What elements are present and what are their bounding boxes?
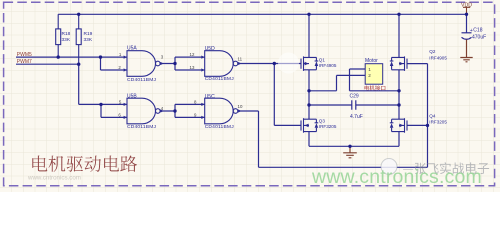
junction rail-VDD/C18: [465, 13, 468, 16]
svg-text:C29: C29: [350, 93, 359, 99]
junction PWM7-R19: [77, 62, 80, 65]
svg-text:Q1: Q1: [319, 57, 326, 62]
pin arrow marks on gate pins: [124, 56, 242, 120]
junction PWM5 branch: [99, 55, 102, 58]
resistor R18 labels: [62, 31, 71, 43]
svg-text:Motor: Motor: [365, 58, 378, 64]
svg-text:www.cntronics.com: www.cntronics.com: [311, 166, 482, 188]
wire left leg (Q1/Q3 drain column): [308, 14, 310, 146]
resistor R18: [56, 14, 61, 57]
wire PWM7 net: [16, 64, 127, 117]
wire ground rail: [309, 145, 399, 147]
svg-text:4.7uF: 4.7uF: [350, 114, 363, 120]
sheet border (dashed): [4, 2, 495, 186]
wire Motor pin2 to left leg: [309, 75, 365, 90]
junction rail-R19: [77, 13, 80, 16]
watermark logo circle: [381, 159, 397, 175]
svg-text:CD4011BMJ: CD4011BMJ: [127, 124, 157, 130]
svg-text:1: 1: [368, 67, 371, 72]
watermark light spot over wire: [278, 53, 299, 74]
junction ground rail: [348, 145, 351, 148]
svg-text:33K: 33K: [62, 37, 71, 43]
connector Motor: [365, 64, 383, 84]
svg-text:IRF3205: IRF3205: [319, 124, 337, 129]
resistor R19 labels: [84, 31, 93, 43]
svg-text:CD4011BMJ: CD4011BMJ: [205, 124, 235, 130]
wire U5C output to Q2/Q4 gates: [238, 64, 428, 168]
NAND gate U5D CD4011BMJ: [205, 51, 234, 77]
resistor R19: [76, 14, 81, 64]
junction left leg motor tap: [307, 89, 310, 92]
svg-text:U5D: U5D: [205, 46, 215, 52]
NAND gate U5C CD4011BMJ: [205, 98, 234, 124]
ground (bridge): [343, 146, 357, 158]
svg-text:33K: 33K: [84, 37, 93, 43]
svg-text:Q4: Q4: [429, 114, 436, 119]
svg-text:U5B: U5B: [127, 93, 137, 99]
transistor Q3 IRF3205: [301, 118, 318, 133]
svg-text:CD4011BMJ: CD4011BMJ: [205, 76, 235, 82]
svg-text:10: 10: [238, 104, 243, 109]
svg-text:CD4011BMJ: CD4011BMJ: [127, 77, 157, 83]
svg-text:C18: C18: [473, 28, 482, 34]
svg-text:13: 13: [190, 65, 195, 70]
capacitor C18: [466, 14, 468, 33]
wire U5A output to U5D inputs: [160, 57, 205, 70]
wire U5D output to Q1/Q3 gates: [238, 64, 301, 126]
junction U5A out: [173, 62, 176, 65]
wire U5B output to U5C inputs: [160, 104, 205, 117]
svg-text:U5A: U5A: [127, 46, 137, 52]
junction left leg C29 tap: [307, 103, 310, 106]
junction rail-Q1 leg: [307, 13, 310, 16]
svg-text:11: 11: [238, 56, 243, 61]
capacitor C29: [309, 104, 399, 106]
junction right leg motor tap: [397, 89, 400, 92]
wire right leg (Q2/Q4 drain column): [398, 14, 400, 146]
svg-text:U5C: U5C: [205, 94, 215, 100]
junction Q4 gate: [426, 124, 429, 127]
transistor Q4 IRF3205 (mirrored): [390, 118, 407, 133]
wire VDD top rail: [58, 13, 466, 15]
ground (C18): [460, 40, 472, 62]
svg-text:IRF3205: IRF3205: [429, 120, 447, 125]
junction U5D out node: [273, 62, 276, 65]
NAND gate U5A CD4011BMJ: [127, 51, 156, 77]
svg-text:R18: R18: [62, 31, 71, 37]
svg-text:12: 12: [190, 52, 195, 57]
svg-text:470uF: 470uF: [472, 35, 486, 41]
wire PWM5 net: [16, 57, 127, 70]
junction PWM5-R18: [57, 55, 60, 58]
transistor Q1 IRF4905: [301, 56, 318, 71]
svg-text:Q3: Q3: [319, 119, 326, 124]
junction right leg C29 tap: [397, 103, 400, 106]
junction U5B out: [173, 109, 176, 112]
svg-text:IRF4905: IRF4905: [319, 63, 337, 68]
junction rail-Q2 leg: [397, 13, 400, 16]
watermark gray text: [403, 162, 489, 174]
wire Motor pin1 to right leg: [350, 69, 400, 91]
svg-text:2: 2: [368, 73, 371, 78]
NAND gate U5B CD4011BMJ: [127, 98, 156, 124]
transistor Q2 IRF4905 (mirrored): [390, 56, 407, 71]
title 电机驱动电路: [32, 156, 137, 173]
svg-text:Q2: Q2: [429, 49, 436, 54]
label 电机接口: [365, 85, 386, 90]
junction PWM7 branch: [99, 103, 102, 106]
svg-text:IRF4905: IRF4905: [429, 55, 447, 60]
svg-text:R19: R19: [84, 31, 93, 37]
svg-text:www.cntronics.com: www.cntronics.com: [27, 175, 81, 182]
